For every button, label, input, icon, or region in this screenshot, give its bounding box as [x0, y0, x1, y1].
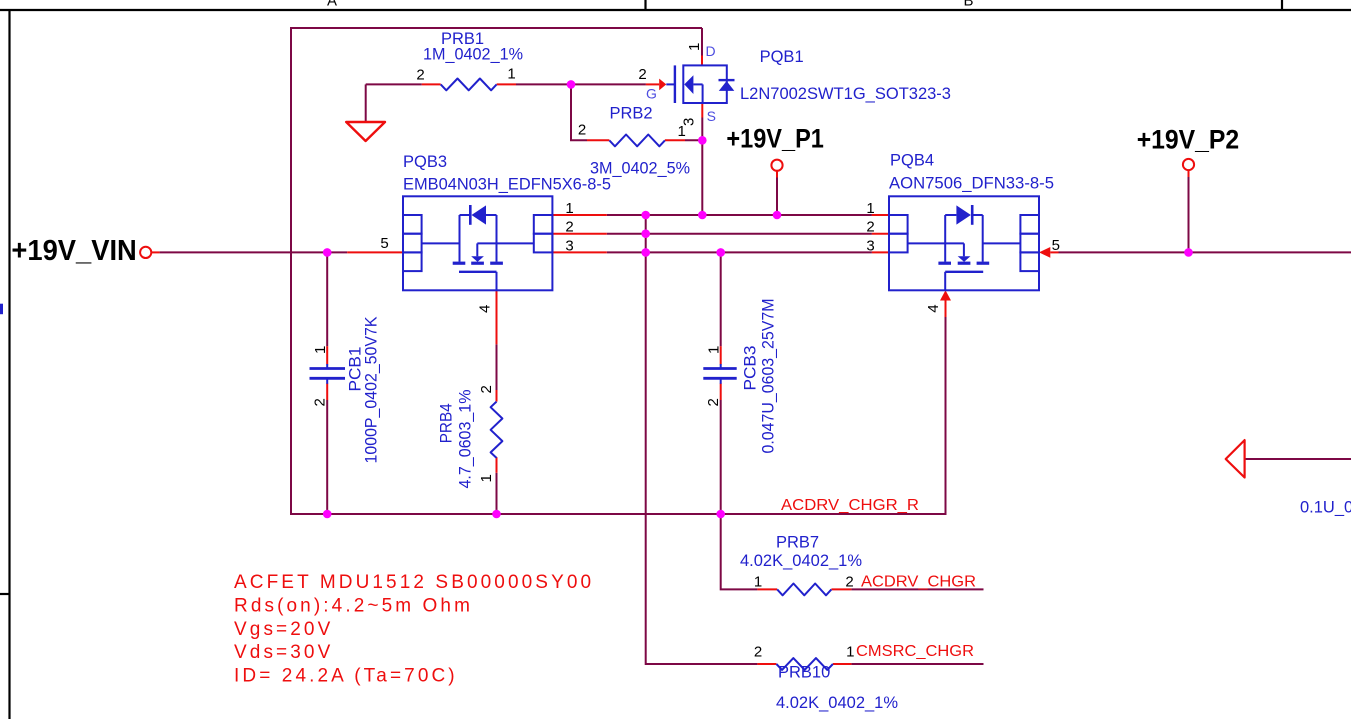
svg-text:+19V_P1: +19V_P1 — [726, 124, 824, 154]
svg-text:Vgs=20V: Vgs=20V — [234, 619, 333, 640]
svg-text:1M_0402_1%: 1M_0402_1% — [423, 46, 523, 64]
svg-text:S: S — [707, 108, 716, 124]
svg-text:2: 2 — [638, 66, 646, 83]
svg-text:1: 1 — [565, 200, 573, 217]
svg-text:3: 3 — [866, 238, 874, 255]
svg-text:2: 2 — [705, 398, 722, 406]
svg-text:PQB3: PQB3 — [403, 153, 447, 171]
svg-text:2: 2 — [578, 122, 586, 139]
svg-text:5: 5 — [1052, 237, 1060, 254]
svg-text:ACFET MDU1512 SB00000SY00: ACFET MDU1512 SB00000SY00 — [234, 572, 594, 593]
svg-text:1: 1 — [706, 346, 723, 354]
svg-text:B: B — [963, 0, 973, 10]
svg-text:+19V_P2: +19V_P2 — [1137, 125, 1240, 155]
svg-text:0.047U_0603_25V7M: 0.047U_0603_25V7M — [759, 299, 777, 454]
svg-text:2: 2 — [565, 219, 573, 236]
svg-text:L2N7002SWT1G_SOT323-3: L2N7002SWT1G_SOT323-3 — [740, 85, 951, 103]
svg-text:0.1U_04: 0.1U_04 — [1300, 499, 1351, 517]
svg-text:1000P_0402_50V7K: 1000P_0402_50V7K — [362, 317, 380, 464]
svg-text:CMSRC_CHGR: CMSRC_CHGR — [856, 643, 974, 660]
svg-text:+19V_VIN: +19V_VIN — [11, 235, 136, 267]
svg-text:1: 1 — [507, 66, 515, 83]
svg-text:ID= 24.2A (Ta=70C): ID= 24.2A (Ta=70C) — [234, 666, 458, 687]
svg-text:D: D — [706, 43, 716, 59]
svg-text:2: 2 — [845, 574, 853, 591]
svg-text:4: 4 — [925, 304, 942, 312]
svg-text:PRB7: PRB7 — [776, 534, 819, 552]
svg-text:3: 3 — [681, 118, 698, 126]
svg-text:PQB4: PQB4 — [890, 152, 934, 170]
svg-text:1: 1 — [846, 644, 854, 661]
svg-text:PRB10: PRB10 — [778, 664, 830, 682]
svg-text:G: G — [646, 86, 657, 102]
svg-text:PRB2: PRB2 — [610, 105, 653, 123]
svg-text:PRB4: PRB4 — [438, 403, 456, 443]
svg-text:1: 1 — [686, 43, 703, 51]
svg-text:2: 2 — [754, 644, 762, 661]
svg-text:EMB04N03H_EDFN5X6-8-5: EMB04N03H_EDFN5X6-8-5 — [403, 176, 611, 194]
svg-text:1: 1 — [478, 474, 495, 482]
svg-text:2: 2 — [478, 385, 495, 393]
svg-text:AON7506_DFN33-8-5: AON7506_DFN33-8-5 — [889, 174, 1054, 192]
svg-text:A: A — [327, 0, 337, 10]
svg-text:2: 2 — [416, 67, 424, 84]
svg-text:5: 5 — [380, 235, 388, 252]
svg-text:1: 1 — [866, 200, 874, 217]
svg-text:2: 2 — [866, 219, 874, 236]
svg-text:2: 2 — [312, 398, 329, 406]
svg-text:3: 3 — [565, 238, 573, 255]
svg-text:Rds(on):4.2~5m Ohm: Rds(on):4.2~5m Ohm — [234, 595, 473, 616]
svg-text:4.02K_0402_1%: 4.02K_0402_1% — [740, 552, 862, 570]
svg-text:4.7_0603_1%: 4.7_0603_1% — [456, 389, 474, 488]
svg-text:1: 1 — [754, 574, 762, 591]
svg-text:1: 1 — [312, 346, 329, 354]
svg-text:Vds=30V: Vds=30V — [234, 642, 333, 663]
svg-text:4.02K_0402_1%: 4.02K_0402_1% — [776, 694, 898, 712]
svg-text:ACDRV_CHGR_R: ACDRV_CHGR_R — [781, 497, 919, 514]
svg-text:4: 4 — [477, 305, 494, 313]
svg-text:PCB3: PCB3 — [741, 346, 759, 391]
svg-text:ACDRV_CHGR: ACDRV_CHGR — [861, 574, 976, 591]
svg-text:PQB1: PQB1 — [760, 48, 804, 66]
